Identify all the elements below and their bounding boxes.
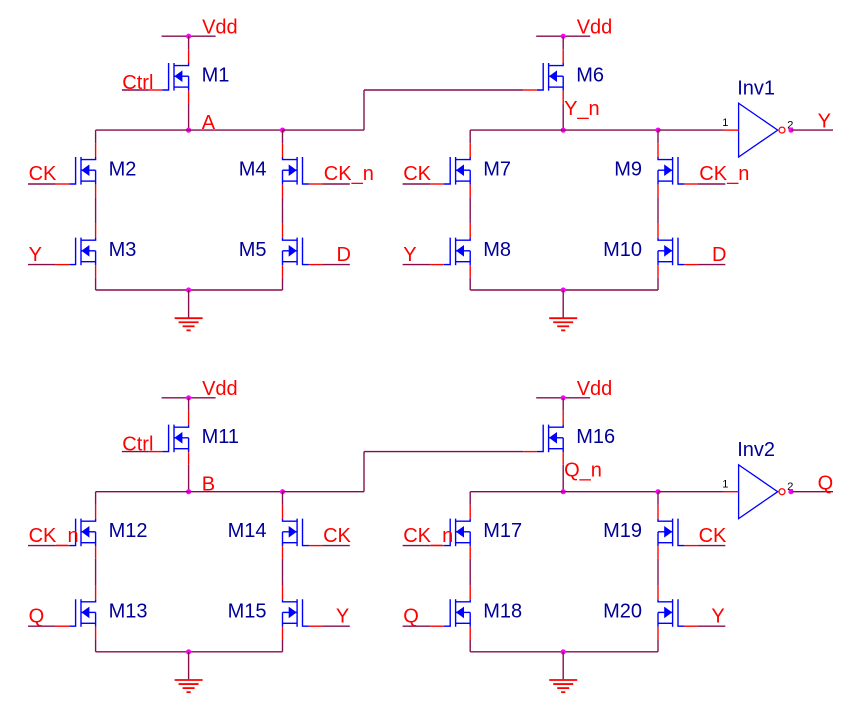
net label CK_n (M12 gate) (28, 525, 79, 547)
junction top-right corner block2 (655, 128, 660, 133)
svg-text:M4: M4 (239, 158, 267, 180)
junction ground tap block2 (561, 287, 566, 292)
wire bottom rail block1 (96, 651, 283, 653)
inverter Inv2 output bubble (779, 489, 785, 495)
svg-text:CK_n: CK_n (29, 525, 79, 547)
net label Q (M13 gate) (28, 605, 56, 627)
svg-text:Q: Q (818, 472, 834, 494)
wire Inv1 output (791, 129, 833, 131)
wire top rail block2 (470, 129, 658, 131)
power symbol Vdd (M11 drain) (162, 378, 238, 400)
ground symbol (block2) (549, 290, 577, 330)
junction node Q_n (561, 489, 566, 494)
transistor M10 (658, 224, 698, 278)
net label D (M10 gate) (698, 244, 727, 266)
Inv2 input pin stub (723, 491, 739, 493)
transistor M11 (149, 411, 189, 465)
svg-text:M5: M5 (239, 239, 267, 261)
svg-text:CK: CK (323, 525, 351, 547)
junction dot at Inv1 output (788, 128, 793, 133)
svg-text:M8: M8 (483, 239, 511, 261)
ground symbol (block1) (175, 290, 203, 330)
svg-text:CK_n: CK_n (324, 163, 374, 185)
net label Y (M8 gate) (403, 244, 431, 266)
wire top rail block2 (470, 491, 658, 493)
transistor M18 (430, 585, 470, 639)
inverter Inv1 (722, 78, 833, 157)
svg-text:M11: M11 (202, 426, 239, 448)
svg-text:M17: M17 (483, 520, 522, 542)
svg-text:CK: CK (699, 525, 727, 547)
wire bottom rail block1 (96, 289, 283, 291)
net label CK (M19 gate) (698, 525, 727, 547)
svg-text:M16: M16 (576, 426, 615, 448)
ground symbol (block2) (549, 652, 577, 692)
junction ground tap block1 (186, 649, 191, 654)
junction top-right corner block1 (280, 489, 285, 494)
transistor M19 (658, 505, 698, 559)
transistor M2 (56, 143, 96, 197)
net label Q (M18 gate) (403, 605, 431, 627)
svg-text:1: 1 (722, 117, 728, 129)
ground symbol (block1) (175, 652, 203, 692)
junction node B (186, 489, 191, 494)
svg-text:Vdd: Vdd (577, 378, 613, 400)
svg-text:D: D (337, 244, 351, 266)
net label Ctrl (M1 gate) (122, 72, 154, 94)
wire top rail block1 (96, 491, 283, 493)
net label CK (M7 gate) (403, 163, 432, 185)
net label Y (M20 gate) (698, 605, 725, 627)
transistor M7 (430, 143, 470, 197)
transistor M8 (430, 224, 470, 278)
svg-text:M18: M18 (483, 601, 522, 623)
net label CK_n (M9 gate) (698, 163, 749, 185)
svg-text:Vdd: Vdd (202, 378, 238, 400)
wire left rail block1 (3 segments) (95, 492, 97, 652)
wire Vdd bar to M6 drain (562, 36, 564, 49)
wire Vdd bar to M11 drain (188, 398, 190, 411)
transistor M16 (523, 411, 563, 465)
svg-text:M6: M6 (576, 64, 604, 86)
wire block2 corner to Inv1 input (658, 129, 723, 131)
wire M16 source to node Q_n (562, 465, 564, 492)
wire M6 source to node Y_n (562, 103, 564, 130)
svg-text:M13: M13 (109, 601, 148, 623)
transistor M17 (430, 505, 470, 559)
wire node B rail to M16 gate (jog) (283, 452, 524, 492)
svg-text:M15: M15 (228, 601, 267, 623)
power symbol Vdd (M1 drain) (162, 17, 238, 39)
svg-text:M3: M3 (109, 239, 137, 261)
svg-text:Ctrl: Ctrl (122, 72, 153, 94)
svg-text:Q: Q (403, 605, 419, 627)
svg-text:Inv2: Inv2 (737, 439, 775, 461)
transistor M6 (523, 49, 563, 103)
net label Y (M3 gate) (28, 244, 56, 266)
svg-text:M19: M19 (603, 520, 642, 542)
transistor M5 (283, 224, 323, 278)
svg-text:Y: Y (403, 244, 416, 266)
svg-text:Q_n: Q_n (564, 460, 602, 482)
wire bottom rail block2 (470, 289, 658, 291)
wire Vdd bar to M1 drain (188, 36, 190, 49)
svg-text:M7: M7 (483, 158, 511, 180)
svg-text:M10: M10 (603, 239, 642, 261)
inverter Inv2 (722, 439, 833, 518)
wire left rail block2 (3 segments) (469, 492, 471, 652)
net label Ctrl (M11 gate) (122, 434, 154, 456)
transistor M4 (283, 143, 323, 197)
junction ground tap block1 (186, 287, 191, 292)
transistor M14 (283, 505, 323, 559)
svg-text:M14: M14 (228, 520, 267, 542)
wire left rail block1 (3 segments) (95, 130, 97, 290)
net label CK (M14 gate) (322, 525, 351, 547)
svg-text:Y: Y (711, 605, 724, 627)
net label D (M5 gate) (322, 244, 351, 266)
inverter Inv1 output bubble (779, 127, 785, 133)
svg-text:CK_n: CK_n (699, 163, 749, 185)
power symbol Vdd (M16 drain) (536, 378, 612, 400)
wire right rail block2 (3 segments) (657, 130, 659, 290)
svg-text:Ctrl: Ctrl (122, 434, 153, 456)
svg-text:1: 1 (722, 479, 728, 491)
svg-text:Inv1: Inv1 (737, 78, 775, 100)
junction node A (186, 128, 191, 133)
junction ground tap block2 (561, 649, 566, 654)
svg-text:Y: Y (29, 244, 42, 266)
wire block2 corner to Inv2 input (658, 491, 723, 493)
svg-text:Y: Y (818, 111, 831, 133)
net label Y (M15 gate) (322, 605, 349, 627)
wire left rail block2 (3 segments) (469, 130, 471, 290)
transistor M20 (658, 585, 698, 639)
svg-text:Y: Y (336, 605, 349, 627)
net label CK_n (M17 gate) (403, 525, 454, 547)
svg-text:M20: M20 (603, 601, 642, 623)
wire Vdd bar to M16 drain (562, 398, 564, 411)
wire node A rail to M6 gate (jog) (283, 90, 524, 130)
transistor M9 (658, 143, 698, 197)
transistor M1 (149, 49, 189, 103)
net label CK (M2 gate) (28, 163, 57, 185)
transistor M15 (283, 585, 323, 639)
svg-text:M1: M1 (202, 64, 230, 86)
wire M11 source to node B (188, 465, 190, 492)
svg-text:D: D (712, 244, 726, 266)
wire right rail block2 (3 segments) (657, 492, 659, 652)
wire right rail block1 (3 segments) (282, 492, 284, 652)
junction top-right corner block1 (280, 128, 285, 133)
transistor M13 (56, 585, 96, 639)
wire top rail block1 (96, 129, 283, 131)
wire right rail block1 (3 segments) (282, 130, 284, 290)
svg-text:CK: CK (29, 163, 57, 185)
wire M1 source to node A (188, 103, 190, 130)
transistor M3 (56, 224, 96, 278)
svg-text:CK: CK (403, 163, 431, 185)
svg-text:M12: M12 (109, 520, 148, 542)
wire bottom rail block2 (470, 651, 658, 653)
transistor M12 (56, 505, 96, 559)
svg-text:Q: Q (29, 605, 45, 627)
junction node Y_n (561, 128, 566, 133)
svg-text:M9: M9 (614, 158, 642, 180)
wire Inv2 output (791, 491, 833, 493)
Inv1 input pin stub (723, 129, 739, 131)
junction top-right corner block2 (655, 489, 660, 494)
svg-text:CK_n: CK_n (403, 525, 453, 547)
power symbol Vdd (M6 drain) (536, 17, 612, 39)
svg-text:M2: M2 (109, 158, 137, 180)
svg-text:Vdd: Vdd (577, 17, 613, 39)
junction dot at Inv2 output (788, 489, 793, 494)
svg-text:Y_n: Y_n (564, 98, 600, 120)
net label CK_n (M4 gate) (322, 163, 373, 185)
svg-text:Vdd: Vdd (202, 17, 238, 39)
